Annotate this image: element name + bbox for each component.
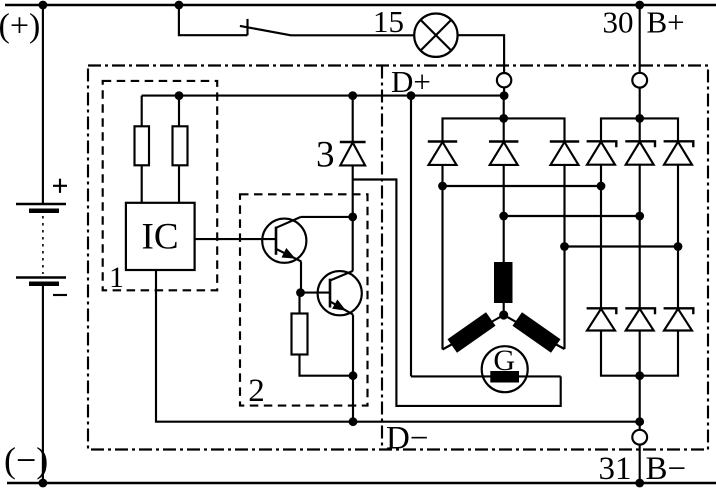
node rail/resistor2 — [175, 91, 184, 100]
zener diode D3- — [664, 309, 692, 331]
top supply wire (+) rail — [5, 4, 716, 7]
wire resistor R1 bottom — [141, 165, 143, 203]
node rail/D+ terminal — [500, 91, 509, 100]
wire switch to lamp — [292, 34, 415, 36]
svg-text:G: G — [493, 344, 515, 377]
zener diode D1- — [587, 309, 615, 331]
battery - sign — [53, 294, 67, 296]
phase rail W — [565, 245, 679, 247]
wire phase U right column — [600, 165, 602, 309]
regulator box 1 dashed — [103, 81, 218, 290]
svg-text:(+): (+) — [0, 8, 40, 45]
D+ rail inside regulator — [142, 95, 504, 97]
wire B+ rail center drop — [639, 118, 641, 141]
zener diode D1+ cathode bar — [587, 141, 617, 147]
transistor Q2 — [318, 271, 362, 315]
svg-text:IC: IC — [142, 217, 179, 258]
zener diode D3- cathode bar — [664, 308, 694, 314]
exciter diode Dc cathode bar — [550, 140, 579, 142]
terminal B+ — [632, 73, 647, 88]
zener diode D1+ — [587, 142, 615, 165]
rotor G circle — [482, 346, 528, 392]
diode D3 — [340, 143, 365, 166]
svg-text:15: 15 — [373, 4, 404, 39]
node emitter/D- rail — [349, 417, 358, 426]
wire Q1 emitter drop — [300, 262, 302, 293]
wire phase W right column — [677, 165, 679, 309]
node collector junction — [348, 213, 357, 222]
wire Q2 base — [301, 292, 331, 294]
main positive rail (B+) — [601, 118, 678, 141]
phase rail V — [504, 215, 640, 217]
svg-text:1: 1 — [109, 261, 124, 294]
lamp H1 (15) — [414, 14, 457, 57]
resistor R1 — [135, 126, 150, 165]
resistor R3 — [292, 314, 308, 355]
wire negative rail to D- junction — [639, 376, 641, 430]
node phase V left — [499, 212, 508, 221]
terminal D+ — [497, 73, 511, 87]
diode D3 cathode bar — [340, 141, 366, 143]
wire battery top — [42, 5, 44, 204]
housing divider dash-dot — [381, 66, 383, 450]
stator winding W coil — [513, 312, 561, 352]
wire D+ terminal to rail — [503, 87, 505, 95]
wire switch drop — [179, 5, 248, 35]
svg-text:30: 30 — [603, 5, 634, 40]
exciter diode Db cathode bar — [489, 140, 518, 142]
switch S contact tick — [246, 19, 248, 35]
node switch branch junction — [175, 1, 184, 10]
node rail/brush wire — [407, 91, 416, 100]
battery cell 2 — [16, 278, 66, 287]
wire brushes — [411, 375, 561, 377]
wire R3 bottom to emitter — [300, 355, 354, 376]
svg-text:B+: B+ — [647, 5, 685, 40]
zener diode D2- — [626, 309, 654, 331]
svg-text:31: 31 — [599, 451, 632, 487]
wire V coil to star point — [503, 303, 505, 315]
zener diode D2+ cathode bar — [625, 141, 655, 147]
wire resistor R1 top — [141, 96, 143, 127]
driver box 2 dashed — [240, 194, 368, 405]
stator winding V coil — [494, 262, 513, 303]
wire IC output to Q1 base — [195, 238, 276, 240]
zener diode D1- cathode bar — [587, 308, 617, 314]
battery dotted middle — [42, 216, 44, 274]
terminal B- — [632, 430, 647, 445]
svg-text:(−): (−) — [4, 440, 48, 480]
negative rail of rectifier — [601, 331, 678, 376]
wire zener D2- anode to negative rail — [639, 331, 641, 376]
exciter diode Da cathode bar — [428, 140, 457, 142]
rotor field bar — [490, 371, 519, 383]
switch S blade — [240, 26, 292, 36]
wire battery bottom — [42, 286, 44, 483]
node D- rail/B- — [635, 417, 644, 426]
node phase U right — [597, 182, 606, 191]
wire R3 top — [298, 293, 300, 314]
node B+ rail center — [635, 114, 644, 123]
wire star to U coil — [486, 315, 504, 325]
node battery- junction — [39, 479, 48, 488]
node phase W left — [560, 242, 569, 251]
resistor R2 — [173, 126, 188, 165]
wire resistor R2 top — [178, 96, 180, 127]
wire phase V column — [503, 165, 505, 262]
stator winding U coil — [448, 312, 496, 352]
zener diode D2- cathode bar — [625, 308, 655, 314]
exciter diode Dc — [551, 142, 579, 165]
node phase U left — [438, 182, 447, 191]
svg-text:3: 3 — [316, 135, 335, 176]
exciter diode Da — [429, 142, 457, 165]
svg-text:D−: D− — [386, 420, 428, 456]
zener diode D2+ — [626, 142, 654, 165]
node B- bottom junction — [635, 479, 644, 488]
battery + sign — [53, 179, 67, 193]
generator housing dash-dot box — [88, 66, 708, 450]
wire Q2 emitter drop to D- rail — [352, 315, 354, 422]
node negative rail center — [635, 371, 644, 380]
wire lamp to D+ terminal — [458, 35, 505, 73]
IC U1 box — [126, 203, 195, 270]
node rail/diode3 — [348, 91, 357, 100]
node phase W right — [674, 242, 683, 251]
wire phase U column — [441, 165, 443, 350]
wire U coil to phase column — [443, 342, 457, 350]
wire Q1 collector — [301, 216, 353, 218]
wire diode3 anode to Q2 collector — [352, 165, 354, 271]
node star point — [499, 310, 508, 319]
exciter diode rail (D+) — [443, 118, 565, 141]
exciter diode Db — [490, 142, 518, 165]
wire exciter center drop — [503, 96, 505, 142]
node exciter rail center — [499, 114, 508, 123]
wire main vertical D+ to diode 3 — [352, 96, 354, 142]
zener diode D3+ — [664, 142, 692, 165]
wire W coil to phase column — [552, 342, 565, 349]
node phase V right — [635, 212, 644, 221]
wire field freewheel path — [353, 180, 561, 406]
phase rail U — [443, 185, 602, 187]
transistor Q1 — [262, 217, 306, 263]
node emitter/R3 bottom — [349, 371, 358, 380]
svg-text:2: 2 — [248, 373, 264, 409]
svg-text:B−: B− — [646, 451, 687, 487]
wire resistor R2 bottom — [178, 165, 180, 203]
node B+ junction — [635, 1, 644, 10]
wire star to W coil — [504, 315, 522, 325]
wire B- terminal to bottom rail — [639, 445, 641, 483]
wire phase V right column — [639, 165, 641, 309]
bottom supply wire (-) rail — [7, 482, 716, 485]
wire B+ drop — [639, 5, 641, 73]
node Q1e/Q2b/R3 — [296, 288, 305, 297]
wire B+ terminal to rectifier rail — [639, 88, 641, 119]
battery cell 1 — [16, 204, 66, 213]
wire phase W column — [563, 165, 565, 349]
zener diode D3+ cathode bar — [664, 141, 694, 147]
wire IC bottom to D- rail — [156, 270, 640, 422]
node battery+ junction — [39, 1, 48, 10]
wire D+ to left brush — [410, 96, 412, 377]
